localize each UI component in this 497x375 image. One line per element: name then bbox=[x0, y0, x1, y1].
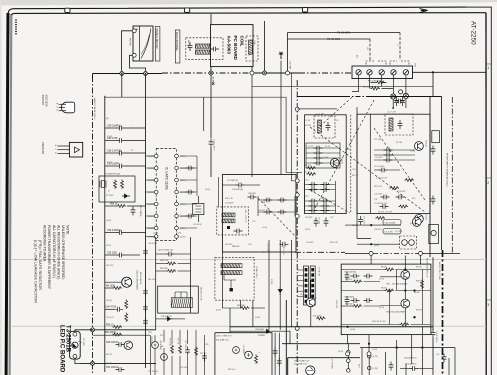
svg-text:(12.6V): (12.6V) bbox=[106, 300, 113, 302]
terminal screw 2 bbox=[367, 70, 372, 75]
cap row bottom right B bbox=[442, 354, 447, 363]
long wire y326.8 bbox=[230, 326, 433, 328]
IC1 pin R16 bbox=[175, 154, 179, 158]
svg-text:L2 C7 15P: L2 C7 15P bbox=[387, 112, 397, 114]
svg-text:C59 10MF(L): C59 10MF(L) bbox=[107, 124, 121, 127]
switch contact bbox=[347, 369, 351, 373]
paper fold line lower bbox=[12, 325, 486, 327]
svg-text:C2 4P: C2 4P bbox=[305, 120, 311, 122]
legend transistor TO-92 package bbox=[61, 102, 74, 113]
dashed jumper bracket B bbox=[390, 61, 409, 65]
junction dot bbox=[421, 346, 423, 348]
boxed label C45 bbox=[383, 220, 401, 225]
terminal screw 1 bbox=[356, 70, 361, 75]
wire screw1 down bbox=[352, 75, 359, 92]
svg-text:75: 75 bbox=[396, 44, 398, 46]
left rail B x146 bbox=[145, 73, 147, 368]
bus to frame wire bbox=[413, 71, 487, 73]
front-end outer right edge bbox=[441, 97, 443, 251]
svg-text:R70 5.6K: R70 5.6K bbox=[169, 338, 171, 347]
svg-text:(B): (B) bbox=[106, 118, 109, 120]
svg-text:C94 330P: C94 330P bbox=[225, 203, 234, 205]
connector pad bbox=[305, 279, 308, 282]
gang diagonal long left bbox=[315, 100, 374, 208]
transistor Q4 bottom-left bbox=[124, 341, 132, 349]
svg-text:R9 5K: R9 5K bbox=[416, 266, 422, 268]
resistor R1 bbox=[376, 81, 386, 84]
cap C16 bbox=[358, 216, 363, 225]
resistor R5 bbox=[121, 180, 124, 190]
audio driver block outline bbox=[341, 264, 431, 335]
wire y343.7 bbox=[282, 343, 360, 345]
vertical x240 below T5 bbox=[239, 300, 241, 308]
scanner background top band bbox=[0, 0, 497, 6]
front-end right column edge bbox=[429, 97, 431, 258]
svg-text:C46 0.033: C46 0.033 bbox=[148, 243, 157, 245]
svg-text:R58 3.3K: R58 3.3K bbox=[160, 260, 169, 262]
svg-text:R7 220K: R7 220K bbox=[106, 195, 114, 197]
left rail A x105 bbox=[104, 96, 106, 372]
meter terminal + bbox=[132, 29, 136, 33]
wire drop x121 bbox=[121, 74, 123, 98]
svg-text:TR6 2SC2120(GR)(P): TR6 2SC2120(GR)(P) bbox=[386, 312, 406, 314]
svg-text:R72 4.7K: R72 4.7K bbox=[282, 247, 284, 256]
svg-text:75 OHMS: 75 OHMS bbox=[327, 37, 340, 41]
cap C49 row bbox=[105, 308, 114, 310]
T1 FM ant coil dashed box bbox=[314, 116, 335, 138]
capacitor row bbox=[374, 149, 415, 151]
svg-text:D12 LED: D12 LED bbox=[82, 338, 84, 346]
svg-text:CH 60M R6 10K: CH 60M R6 10K bbox=[106, 174, 121, 176]
gang capacitor pair (AM) bbox=[258, 199, 295, 201]
svg-text:R63 536: R63 536 bbox=[237, 305, 245, 307]
vertical resistor chain x126 lower bbox=[125, 300, 128, 310]
svg-text:C3 22P: C3 22P bbox=[308, 146, 315, 148]
svg-text:AC/DC 478 (C7 BK): AC/DC 478 (C7 BK) bbox=[438, 262, 441, 280]
svg-text:C31: C31 bbox=[374, 199, 377, 201]
svg-text:X1: X1 bbox=[107, 190, 109, 192]
T2 FM RF coil dashed box bbox=[385, 114, 413, 135]
front-end bottom dash-dot bbox=[295, 251, 345, 253]
capacitor row bbox=[306, 152, 340, 154]
svg-text:CT2: CT2 bbox=[305, 196, 309, 198]
EXT ANT terminal symbol bbox=[279, 52, 283, 59]
connector pad bbox=[305, 268, 308, 271]
capacitor row bbox=[306, 157, 340, 159]
IC1 pin R10 bbox=[175, 226, 179, 230]
main board boundary (dash-dot) bbox=[92, 76, 94, 375]
svg-text:C8 100MF: C8 100MF bbox=[242, 345, 244, 355]
IC1 pin R12 bbox=[175, 202, 179, 206]
svg-text:R68 2W: R68 2W bbox=[232, 246, 239, 248]
cap C33 bbox=[431, 329, 436, 338]
svg-text:T3-2501B: T3-2501B bbox=[65, 325, 72, 353]
cap C55 row bbox=[105, 254, 116, 256]
X marker x213 bbox=[212, 83, 214, 85]
frame top border bbox=[11, 13, 486, 15]
main bus mid segment bbox=[250, 72, 299, 74]
svg-text:C41: C41 bbox=[436, 354, 439, 356]
junction above front-end bbox=[399, 90, 403, 94]
wire bbox=[180, 167, 197, 169]
wire x211 from bus bbox=[210, 75, 212, 138]
balun transistor-like core A bbox=[391, 94, 396, 99]
verticals bottom right bbox=[396, 340, 398, 375]
svg-text:(0.5V): (0.5V) bbox=[410, 223, 416, 225]
svg-text:COIL: COIL bbox=[239, 36, 244, 47]
svg-text:(4.2V): (4.2V) bbox=[338, 351, 344, 353]
junction dot block top bbox=[392, 107, 394, 109]
wire LED top to bus bbox=[75, 330, 92, 333]
IC3 rails bbox=[368, 354, 370, 375]
svg-text:2SC1815: 2SC1815 bbox=[45, 95, 49, 107]
svg-text:C55 1000: C55 1000 bbox=[107, 252, 118, 254]
svg-text:R66 100(F): R66 100(F) bbox=[105, 332, 117, 334]
junction dot bbox=[404, 268, 406, 270]
main bus dash-dot segment bbox=[162, 72, 250, 74]
svg-text:C36 18P: C36 18P bbox=[305, 217, 313, 219]
strong vertical x286 bbox=[285, 300, 287, 375]
svg-text:C6 6000(S): C6 6000(S) bbox=[344, 297, 355, 299]
svg-text:2SC929: 2SC929 bbox=[425, 213, 427, 220]
wire bbox=[297, 269, 303, 271]
capacitor C59 bbox=[105, 127, 116, 129]
wire right column down bbox=[432, 257, 434, 330]
svg-text:C30 30P: C30 30P bbox=[398, 191, 406, 193]
T1 trimmer bbox=[326, 122, 331, 131]
antenna terminal strip TB1 bbox=[352, 66, 413, 79]
wire bbox=[179, 330, 181, 344]
IC1 pin R13 bbox=[175, 190, 179, 194]
svg-text:R12 51K: R12 51K bbox=[345, 304, 353, 306]
cap C2 between cores bbox=[395, 99, 404, 104]
svg-text:R77 2.2: R77 2.2 bbox=[200, 353, 207, 355]
vertical x222 below box bbox=[221, 252, 223, 308]
vertical x369 bbox=[368, 335, 370, 355]
svg-text:REGULATOR: REGULATOR bbox=[139, 272, 142, 285]
wire bbox=[163, 330, 165, 342]
gang capacitor pair bbox=[305, 189, 336, 191]
svg-text:IC 1 APC 1116S: IC 1 APC 1116S bbox=[165, 167, 169, 190]
svg-text:CF1 455K: CF1 455K bbox=[193, 224, 202, 226]
wire bus to block top bbox=[432, 72, 434, 96]
vertical pair x275-279 bottom bbox=[274, 333, 276, 375]
capacitor (rail B bypass) bbox=[143, 288, 148, 297]
svg-text:(1.1V): (1.1V) bbox=[262, 227, 268, 229]
capacitor (rail B bypass) bbox=[143, 304, 148, 313]
svg-text:R20 2.2K: R20 2.2K bbox=[330, 242, 339, 244]
CF2 pins bbox=[175, 292, 187, 298]
svg-text:MAIN PC BD AT-2250-2: MAIN PC BD AT-2250-2 bbox=[93, 98, 96, 120]
svg-text:W1 8P CN: W1 8P CN bbox=[318, 267, 320, 277]
T5 core square bbox=[230, 288, 233, 291]
TR5 vertical wires bbox=[404, 256, 406, 271]
terminal screw 5 bbox=[403, 70, 408, 75]
svg-text:(2.2V): (2.2V) bbox=[345, 149, 351, 151]
resistor R63 bbox=[240, 307, 250, 310]
power cluster cap vertical bbox=[185, 347, 190, 356]
vertical x455 bottom stub bbox=[454, 348, 456, 375]
frame right border bbox=[485, 13, 487, 375]
gang diagonal link 1 bbox=[310, 127, 425, 212]
vertical x433 bottom bbox=[432, 338, 434, 375]
TO-220 leads bbox=[57, 145, 69, 147]
vertical x291 bbox=[290, 240, 292, 327]
svg-text:C45 0.0068: C45 0.0068 bbox=[385, 223, 397, 225]
svg-text:AA-5063: AA-5063 bbox=[226, 36, 231, 55]
wire bbox=[187, 330, 189, 344]
wire bbox=[146, 179, 155, 181]
IC1 pin L2 bbox=[154, 166, 158, 170]
wire x198 bbox=[197, 196, 199, 203]
T1 winding bbox=[318, 120, 322, 133]
svg-text:2W 1+2: 2W 1+2 bbox=[228, 369, 236, 371]
wire bbox=[297, 285, 303, 287]
wire LED bottom to bus bbox=[75, 358, 81, 363]
label BAR ANTENNA bbox=[175, 30, 180, 63]
svg-text:MW - OSC PU: MW - OSC PU bbox=[244, 210, 246, 223]
trimmer CT101 bbox=[188, 42, 193, 51]
svg-text:1: 1 bbox=[487, 66, 489, 70]
svg-text:(3.1V): (3.1V) bbox=[305, 229, 311, 231]
wire x203 bbox=[203, 97, 205, 131]
long wire y99.5 bbox=[105, 96, 302, 173]
gang capacitor pair bbox=[305, 210, 336, 212]
FM mixer transistor TR2 bbox=[330, 159, 339, 168]
power cluster cap CE1 bbox=[152, 342, 159, 349]
connector pad bbox=[305, 284, 308, 287]
cap C96 bbox=[248, 195, 257, 200]
bus junction J6 bbox=[286, 71, 290, 75]
svg-text:R2 100: R2 100 bbox=[305, 171, 311, 173]
svg-text:R71 1K: R71 1K bbox=[177, 338, 179, 345]
svg-text:UNLESS OTHERWISE SPECIFIED:: UNLESS OTHERWISE SPECIFIED: bbox=[61, 225, 65, 280]
junction dot bbox=[388, 289, 390, 291]
resistor R66 row bbox=[113, 333, 123, 336]
main bus dash segment 2 bbox=[299, 72, 352, 74]
front-end right sub-box bbox=[357, 114, 430, 213]
svg-text:(1.3V): (1.3V) bbox=[373, 368, 379, 370]
coil board outline bbox=[211, 25, 254, 67]
vertical x230 bbox=[229, 308, 231, 333]
wire screw2 down to R2 bbox=[370, 75, 376, 89]
power transistor Q3 bbox=[122, 277, 132, 287]
svg-text:R59 56K: R59 56K bbox=[160, 268, 168, 270]
aux dash-dot x452 bbox=[451, 97, 453, 253]
bottom cut-off vertical a bbox=[385, 352, 387, 375]
switch contact bbox=[347, 350, 351, 354]
svg-text:C48 2.2 MUT ON: C48 2.2 MUT ON bbox=[158, 249, 174, 251]
connector pad bbox=[311, 284, 314, 287]
vertical x253 below T5 bbox=[252, 300, 254, 327]
svg-text:ACCORDING TO AREA.: ACCORDING TO AREA. bbox=[43, 225, 47, 262]
svg-text:+B1: +B1 bbox=[160, 346, 163, 348]
antenna wire 75 ohms lower bbox=[288, 38, 371, 40]
svg-text:(1.6V): (1.6V) bbox=[106, 220, 112, 222]
electrolytic C58 bbox=[131, 207, 136, 216]
trimmer CT102 bbox=[210, 47, 219, 52]
resistor R4 bbox=[114, 180, 117, 190]
cap C18 bbox=[324, 218, 329, 227]
capacitor (decoupling) bbox=[186, 214, 195, 219]
crystal X1 bbox=[100, 181, 106, 188]
bar antenna ferrite coil bbox=[195, 44, 209, 54]
wire bbox=[297, 274, 303, 276]
cap at x284 top bbox=[279, 242, 288, 247]
diode D2 bbox=[122, 194, 130, 198]
trimmer in AM box bbox=[234, 229, 243, 234]
electrolytic CB3 bbox=[245, 351, 253, 359]
svg-text:Y88 1N60: Y88 1N60 bbox=[255, 329, 265, 331]
T102 coil symbol bbox=[249, 40, 253, 55]
front-end inner divider bbox=[369, 114, 371, 213]
junction dot bbox=[368, 343, 370, 345]
svg-text:SIGNAL METER: SIGNAL METER bbox=[155, 29, 159, 49]
binder tab 3 bbox=[303, 8, 308, 12]
svg-text:PC BOARD: PC BOARD bbox=[233, 36, 238, 61]
svg-text:C71: C71 bbox=[262, 252, 265, 254]
diode D9 bbox=[278, 287, 282, 295]
svg-text:D8 (L)(MPC2): D8 (L)(MPC2) bbox=[404, 358, 417, 360]
svg-text:2: 2 bbox=[487, 181, 489, 185]
output transistor TR6 bbox=[401, 299, 410, 308]
upper-left rows sub-box bbox=[306, 143, 340, 168]
board feed-through bbox=[295, 214, 299, 218]
IC1 pin L5 bbox=[154, 202, 158, 206]
gang capacitor pair bbox=[305, 184, 336, 186]
wire y347 right bbox=[360, 347, 433, 349]
wire bbox=[297, 280, 303, 282]
svg-text:L1 C1 18P: L1 C1 18P bbox=[315, 114, 325, 116]
wire 300ohm feed down bbox=[369, 39, 371, 60]
diode D8 on feed bbox=[264, 329, 272, 333]
svg-text:AT-2250: AT-2250 bbox=[470, 21, 477, 45]
svg-text:C90 100/10: C90 100/10 bbox=[106, 342, 119, 344]
connector pad bbox=[311, 268, 314, 271]
tick mark frame 1 bbox=[486, 63, 491, 65]
capacitor (rail B bypass) bbox=[143, 318, 148, 327]
svg-text:C20: C20 bbox=[352, 169, 355, 171]
IC1 pin R15 bbox=[175, 166, 179, 170]
svg-text:D11 MA150: D11 MA150 bbox=[161, 315, 172, 318]
svg-text:R33 10K: R33 10K bbox=[225, 244, 233, 246]
svg-text:75 OHMS: 75 OHMS bbox=[337, 31, 350, 35]
svg-text:C51 100/16: C51 100/16 bbox=[148, 371, 158, 373]
wire x310 to block bbox=[310, 318, 312, 327]
svg-text:TR8: TR8 bbox=[313, 298, 317, 300]
svg-text:POWER TRANSFORMER IS DIFFERENT: POWER TRANSFORMER IS DIFFERENT bbox=[47, 225, 51, 289]
terminal screw 4 bbox=[391, 70, 396, 75]
mute rail R x190.5 bbox=[190, 237, 192, 313]
small box on right column B bbox=[429, 224, 439, 243]
svg-text:R-10 ( F S ) 10: R-10 ( F S ) 10 bbox=[372, 321, 386, 323]
svg-text:(0.3V): (0.3V) bbox=[107, 162, 113, 164]
T2 winding bbox=[389, 118, 393, 131]
wire bbox=[180, 203, 197, 205]
CF2 hatched element bbox=[171, 298, 192, 308]
IC1 dashed outline bbox=[156, 149, 176, 241]
extra wires top of bottom B box bbox=[287, 358, 289, 375]
T4 osc transformer dashed box bbox=[400, 236, 417, 249]
svg-text:C83: C83 bbox=[148, 332, 151, 334]
svg-text:C26 100P: C26 100P bbox=[374, 194, 383, 196]
bottom-left extra verticals bbox=[150, 335, 152, 375]
front-end block top edge bbox=[297, 96, 345, 98]
wire meter + to bus bbox=[122, 31, 133, 71]
wire bbox=[146, 155, 155, 157]
svg-text:R4 220: R4 220 bbox=[305, 125, 311, 127]
svg-text:(11.4V): (11.4V) bbox=[300, 294, 306, 296]
page top-right corner / right page edge bbox=[466, 7, 491, 375]
svg-text:(1.7V): (1.7V) bbox=[379, 278, 385, 280]
right board boundary dash-dot thick bbox=[442, 250, 444, 375]
vertical x347 (block B to filter) bbox=[347, 335, 349, 344]
svg-text:R67 1K: R67 1K bbox=[106, 354, 113, 356]
svg-text:R7 51K: R7 51K bbox=[345, 279, 352, 281]
wire bbox=[146, 227, 155, 229]
bus junction J2 bbox=[144, 72, 148, 76]
capacitor row bbox=[374, 159, 415, 161]
bus junction J5 bbox=[263, 71, 267, 75]
power wire y335.2 bbox=[93, 334, 151, 336]
svg-text:R56 1K: R56 1K bbox=[110, 203, 118, 205]
long wire y86 bbox=[252, 85, 433, 87]
IC1 pin R11 bbox=[175, 214, 179, 218]
gang capacitor pair bbox=[305, 200, 336, 202]
connector pad bbox=[311, 273, 314, 276]
IC1 pin L3 bbox=[154, 178, 158, 182]
bottom block A outline bbox=[215, 333, 272, 375]
wire bbox=[180, 227, 197, 229]
connector pad bbox=[305, 300, 308, 303]
power cluster resistor vertical A bbox=[171, 345, 174, 355]
svg-text:CB 1 TUNE CTY: CB 1 TUNE CTY bbox=[294, 360, 310, 362]
front-end left sub-box bbox=[305, 115, 347, 214]
svg-text:C96 56P: C96 56P bbox=[248, 193, 256, 195]
direction arrow on top edge bbox=[420, 9, 428, 13]
wires cores into front end bbox=[392, 99, 394, 108]
svg-text:C17 18P: C17 18P bbox=[318, 217, 320, 225]
svg-text:R30 2.7K: R30 2.7K bbox=[225, 198, 234, 200]
connector pad bbox=[305, 273, 308, 276]
cap C52 row bbox=[116, 367, 125, 372]
svg-text:300: 300 bbox=[366, 47, 368, 50]
LED board terminal bottom bbox=[73, 354, 77, 358]
svg-text:C87 100P: C87 100P bbox=[184, 340, 186, 349]
resistor R56 bbox=[105, 205, 117, 207]
boxed label C46 bbox=[383, 229, 401, 234]
svg-text:C13 0.0068: C13 0.0068 bbox=[374, 166, 384, 168]
power block extra caps bbox=[364, 274, 373, 279]
board feed-through bbox=[295, 107, 299, 111]
bottom block B outline bbox=[288, 358, 360, 375]
wire from AM box right to boundary bbox=[296, 184, 297, 186]
svg-text:C69 100MF: C69 100MF bbox=[267, 243, 269, 254]
svg-text:2SD1266: 2SD1266 bbox=[41, 142, 45, 154]
page top edge line bbox=[8, 7, 466, 13]
svg-text:C52 100/16: C52 100/16 bbox=[106, 367, 119, 369]
svg-text:(0.8V): (0.8V) bbox=[374, 245, 380, 247]
gray wire y108 bbox=[297, 108, 337, 110]
svg-text:C33 4.7MF(L): C33 4.7MF(L) bbox=[435, 331, 437, 343]
bus left corner bbox=[92, 74, 94, 79]
page left edge shadow line bbox=[10, 14, 12, 375]
svg-text:C5 0.0047(S): C5 0.0047(S) bbox=[344, 272, 356, 274]
gang diagonal top bbox=[318, 97, 352, 128]
IC1 pin L4 bbox=[154, 190, 158, 194]
svg-text:SFU450 10.7M: SFU450 10.7M bbox=[200, 287, 202, 301]
svg-text:(FR)= FAIL SAFE RESISTOR: (FR)= FAIL SAFE RESISTOR bbox=[38, 240, 42, 290]
